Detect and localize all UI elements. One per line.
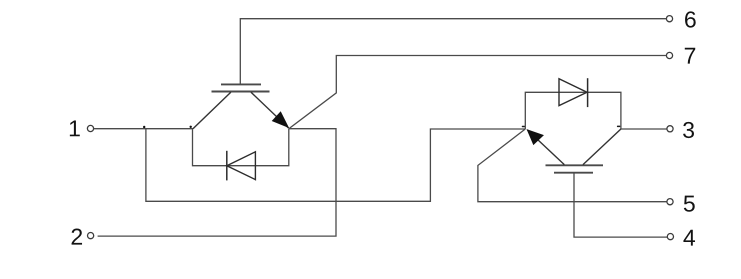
IGBT T1 emitter diagonal	[251, 92, 289, 128]
wire pin7 to emitter node E1	[289, 56, 666, 129]
junction dot D	[617, 126, 621, 128]
terminal 3 label	[683, 122, 694, 138]
IGBT T2 gate lower bar	[554, 172, 593, 174]
diode D1 triangle	[227, 152, 256, 180]
wire node E2 to pin5	[478, 129, 667, 202]
terminal 4 circle	[667, 234, 673, 240]
terminal 7 label	[685, 48, 695, 64]
wire node C3 to pin3	[621, 128, 667, 130]
diode D1 loop wire	[193, 129, 289, 166]
IGBT T1 gate upper bar	[221, 83, 261, 85]
terminal 2 circle	[88, 233, 94, 239]
terminal 1 label	[70, 120, 80, 136]
terminal 4 label	[683, 230, 695, 246]
junction dot A	[143, 126, 145, 128]
terminal 6 label	[685, 11, 696, 27]
IGBT T2 emitter arrowhead	[527, 130, 543, 145]
diode D2 triangle	[559, 79, 587, 106]
IGBT T1 body lower bar	[212, 91, 270, 93]
terminal 5 circle	[667, 199, 673, 205]
junction dot C	[522, 126, 525, 128]
terminal 2 label	[72, 229, 82, 245]
wire pin6 to gate G1	[240, 19, 666, 84]
IGBT T1 collector diagonal	[193, 92, 231, 129]
wire node E1 to pin2	[98, 129, 336, 236]
terminal 7 circle	[666, 52, 672, 58]
diode D2 cathode bar	[587, 78, 589, 107]
terminal 5 label	[684, 196, 695, 212]
diode D1 cathode bar	[226, 151, 228, 181]
diode D2 loop wire	[525, 92, 621, 129]
terminal 3 circle	[667, 126, 673, 132]
terminal 1 circle	[87, 125, 93, 131]
wire pin1 to collector node C1	[94, 128, 193, 130]
IGBT T2 body upper bar	[546, 164, 604, 166]
IGBT T2 emitter diagonal	[527, 130, 564, 165]
wire gate G2 to pin4	[574, 173, 667, 237]
terminal 6 circle	[666, 16, 672, 22]
IGBT T1 emitter arrowhead	[272, 112, 288, 127]
wire pin1 branch to node C2	[146, 129, 525, 202]
junction dot B	[190, 126, 192, 128]
IGBT T2 collector diagonal	[583, 129, 621, 165]
